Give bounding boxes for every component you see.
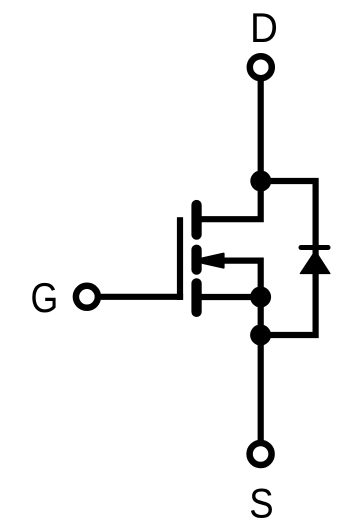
terminal S (open circle)	[250, 443, 272, 465]
label S (source terminal label)	[249, 480, 273, 527]
transistor Q1 channel body segment	[191, 245, 201, 275]
node diode anode junction	[250, 325, 271, 346]
transistor Q1 channel source segment	[191, 278, 201, 317]
wire source (MOSFET source right to node, then down to terminal S)	[195, 297, 261, 440]
diode D1 body diode (cathode bar + triangle pointing up)	[299, 245, 331, 274]
wire gate (from terminal G to gate line)	[101, 294, 183, 300]
wire body (from arrow right, down to source node)	[222, 261, 261, 297]
label D (drain terminal label)	[250, 3, 278, 51]
transistor Q1 gate line (vertical gate electrode)	[177, 217, 183, 300]
transistor Q1 channel drain segment	[191, 200, 201, 240]
terminal G (open circle)	[76, 286, 98, 308]
node drain junction	[250, 171, 271, 192]
svg-text:D: D	[250, 3, 278, 51]
svg-text:S: S	[249, 480, 273, 527]
wire diode branch (drain node right, down, back to source node)	[261, 181, 316, 335]
node source junction	[250, 287, 271, 308]
wire drain (from terminal D down and left to MOSFET drain)	[195, 81, 261, 219]
terminal D (open circle)	[250, 56, 272, 78]
svg-text:G: G	[31, 275, 59, 321]
transistor Q1 body arrow (pointing into channel)	[202, 254, 223, 268]
label G (gate terminal label)	[31, 275, 59, 321]
